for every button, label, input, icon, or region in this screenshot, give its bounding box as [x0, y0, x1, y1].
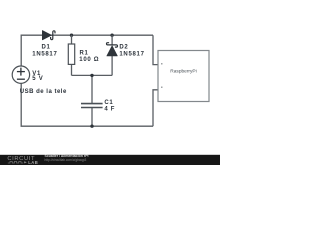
svg-text:100 Ω: 100 Ω [79, 57, 99, 63]
svg-text:R1: R1 [80, 50, 89, 56]
wire C1 branch lower [91, 108, 93, 127]
resistor R1 [68, 35, 74, 75]
label R1 [79, 50, 99, 63]
svg-text:LAB: LAB [28, 160, 38, 165]
chip U1 RaspberryPi [158, 51, 209, 102]
watermark logo arrow [24, 161, 27, 163]
label V1 [32, 71, 43, 82]
svg-text:RaspberryPi: RaspberryPi [170, 68, 196, 74]
diode D1 (schottky) [42, 31, 55, 40]
wire C1 branch upper [91, 75, 93, 103]
wire joiner R1/D2 bottoms [72, 74, 113, 76]
svg-text:4 F: 4 F [104, 107, 115, 113]
watermark bar [0, 155, 220, 165]
wire from V1 bottom down and along bottom rail [21, 83, 153, 126]
watermark logo waveform [8, 161, 23, 163]
svg-text:USB de la tele: USB de la tele [20, 89, 67, 95]
junction node on bottom rail [90, 125, 93, 128]
diode D2 (schottky, pointing up) [107, 35, 118, 75]
label C1 [104, 100, 115, 113]
svg-text:1N5817: 1N5817 [119, 51, 144, 57]
junction node above R1 [70, 34, 73, 37]
wire from bottom rail up to chip pin 2 [153, 90, 158, 126]
svg-text:C1: C1 [104, 100, 113, 106]
svg-text:D1: D1 [41, 45, 50, 51]
junction node joiner to C1 [90, 74, 93, 77]
svg-text:D2: D2 [119, 44, 128, 50]
svg-text:5 V: 5 V [32, 76, 43, 82]
label D2 [119, 44, 144, 57]
svg-text:1N5817: 1N5817 [32, 51, 57, 57]
svg-text:http://circuitlab.com/c/gkwqp3: http://circuitlab.com/c/gkwqp3 [45, 158, 87, 162]
wire right branch down to chip pin 1 [153, 35, 158, 64]
capacitor C1 [81, 104, 103, 108]
label D1 [32, 45, 57, 58]
junction node above D2 [110, 34, 113, 37]
voltage source V1 [12, 66, 29, 83]
wire from V1 top up and along top rail to right branch [21, 35, 153, 66]
